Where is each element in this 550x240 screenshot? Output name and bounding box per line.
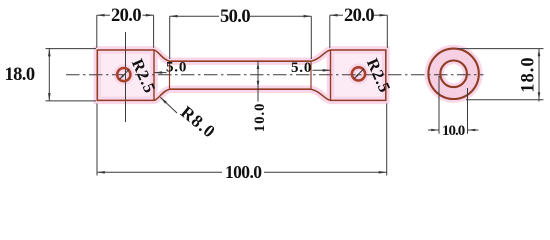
svg-text:18.0: 18.0	[5, 65, 35, 85]
svg-text:5.0: 5.0	[291, 60, 312, 76]
svg-text:18.0: 18.0	[519, 56, 539, 92]
svg-text:10.0: 10.0	[252, 103, 268, 132]
svg-text:5.0: 5.0	[166, 60, 187, 76]
svg-text:20.0: 20.0	[344, 6, 374, 26]
svg-text:50.0: 50.0	[220, 7, 250, 27]
svg-text:10.0: 10.0	[442, 123, 465, 139]
svg-text:20.0: 20.0	[111, 6, 141, 26]
svg-text:100.0: 100.0	[225, 162, 262, 182]
